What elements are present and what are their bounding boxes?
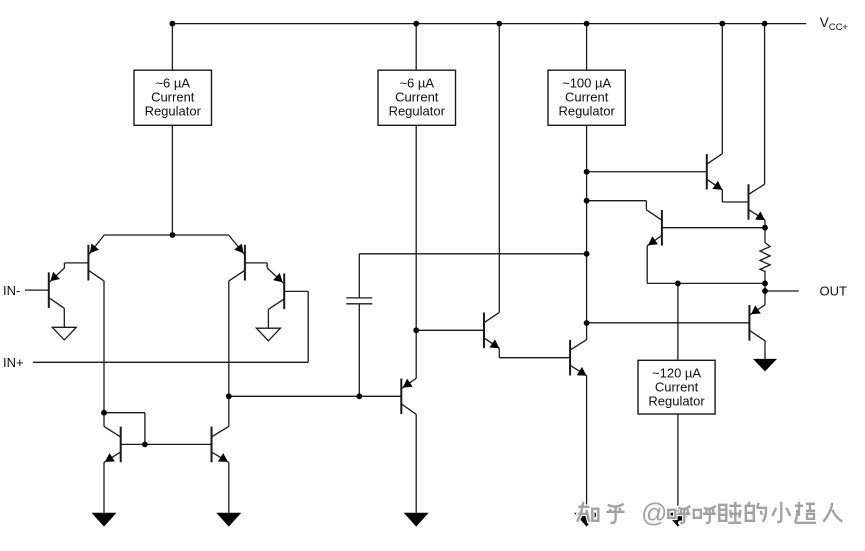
svg-text:Current: Current — [565, 90, 609, 105]
svg-text:~100 µA: ~100 µA — [562, 76, 611, 91]
svg-text:~6 µA: ~6 µA — [155, 76, 190, 91]
svg-text:Current: Current — [395, 90, 439, 105]
svg-text:Regulator: Regulator — [558, 104, 615, 119]
svg-text:Regulator: Regulator — [389, 104, 446, 119]
svg-text:Current: Current — [655, 380, 699, 395]
svg-text:IN-: IN- — [3, 283, 20, 298]
svg-text:OUT: OUT — [820, 283, 848, 298]
svg-text:~120 µA: ~120 µA — [652, 366, 701, 381]
svg-text:Current: Current — [151, 90, 195, 105]
svg-text:Regulator: Regulator — [145, 104, 202, 119]
svg-text:IN+: IN+ — [3, 355, 24, 370]
svg-text:~6 µA: ~6 µA — [399, 76, 434, 91]
svg-text:Regulator: Regulator — [648, 394, 705, 409]
svg-text:@: @ — [641, 498, 667, 528]
